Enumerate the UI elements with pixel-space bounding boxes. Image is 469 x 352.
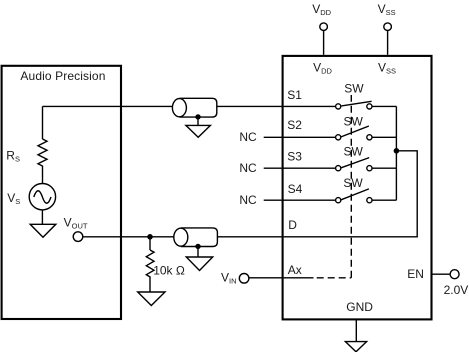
svg-text:S3: S3 — [287, 149, 302, 163]
svg-text:NC: NC — [239, 193, 257, 207]
svg-text:S1: S1 — [287, 88, 302, 102]
svg-text:S4: S4 — [288, 182, 303, 196]
svg-text:NC: NC — [239, 130, 257, 144]
svg-text:D: D — [288, 218, 297, 232]
svg-text:SW: SW — [344, 82, 364, 96]
svg-text:GND: GND — [346, 300, 373, 314]
svg-text:SW: SW — [344, 114, 364, 128]
svg-text:SW: SW — [344, 145, 364, 159]
svg-text:NC: NC — [239, 161, 257, 175]
svg-text:10k Ω: 10k Ω — [153, 263, 185, 277]
svg-text:Audio Precision: Audio Precision — [20, 69, 105, 83]
svg-text:Ax: Ax — [288, 263, 302, 277]
svg-text:SW: SW — [343, 176, 363, 190]
svg-text:S2: S2 — [287, 118, 302, 132]
svg-text:2.0V: 2.0V — [444, 283, 469, 297]
svg-text:EN: EN — [407, 267, 424, 281]
